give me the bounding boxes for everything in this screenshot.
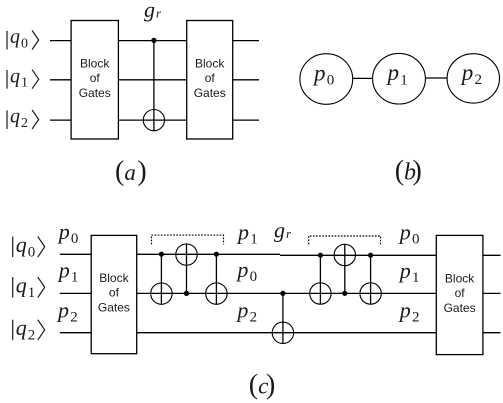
svg-text:of: of (109, 286, 120, 300)
svg-text:of: of (90, 71, 101, 85)
svg-text:Block: Block (80, 56, 110, 70)
svg-text:Block: Block (445, 272, 475, 286)
svg-text:(b): (b) (395, 155, 422, 186)
svg-text:(a): (a) (115, 156, 147, 187)
svg-text:of: of (455, 286, 466, 300)
svg-text:Gates: Gates (444, 301, 476, 315)
svg-text:Gates: Gates (79, 86, 111, 100)
svg-text:Gates: Gates (194, 86, 226, 100)
svg-text:(c): (c) (249, 369, 276, 400)
svg-text:Gates: Gates (98, 301, 130, 315)
svg-text:Block: Block (195, 56, 225, 70)
svg-text:of: of (205, 71, 216, 85)
svg-text:Block: Block (99, 271, 129, 285)
